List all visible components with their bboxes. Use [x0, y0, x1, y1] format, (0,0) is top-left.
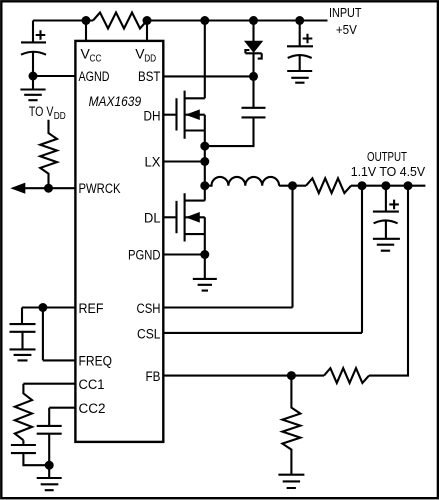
ground G1 (AGND bypass) [20, 76, 45, 100]
svg-text:AGND: AGND [79, 69, 110, 84]
svg-text:CC1: CC1 [79, 377, 105, 392]
svg-text:CSH: CSH [137, 301, 161, 316]
capacitor C6 CC2 compensation [37, 408, 62, 466]
junction node rail-Q1 drain [200, 16, 209, 25]
ground G5 (FB divider) [278, 475, 304, 488]
wire PWRCK [13, 187, 75, 189]
junction node PGND-Q2 source [200, 250, 209, 259]
junction node LX [200, 157, 209, 166]
svg-text:TO V: TO V [29, 104, 54, 119]
wire CSH [163, 186, 292, 308]
wire PGND [163, 253, 205, 255]
wire VCC drop [85, 21, 87, 41]
capacitor C1 VCC bypass (polarized) [21, 21, 46, 77]
resistor R1 VCC filter [93, 13, 147, 29]
capacitor C2 boost [205, 76, 266, 146]
junction node output / CSL [358, 181, 367, 190]
wire VDD drop [146, 21, 148, 41]
wire REF [22, 306, 75, 308]
capacitor C3 input bulk (polarized) [287, 21, 313, 72]
resistor R5 PWRCK pull-up [40, 120, 57, 188]
svg-text:REF: REF [79, 301, 104, 316]
junction node compensation common [45, 461, 54, 470]
wire CC2 [49, 407, 75, 409]
transistor Q1 high-side NMOS (DH) [163, 21, 205, 147]
IC U1 MAX1639 box [75, 41, 163, 442]
wire CC1 [23, 383, 75, 385]
svg-text:1.1V TO 4.5V: 1.1V TO 4.5V [351, 164, 426, 179]
junction node rail-VCC [82, 16, 91, 25]
svg-text:CSL: CSL [137, 326, 161, 341]
junction node PWRCK-R5 [44, 184, 53, 193]
svg-text:DL: DL [144, 211, 161, 226]
transistor Q2 low-side NMOS (DL) [163, 186, 205, 255]
arrow PWRCK output [12, 183, 25, 193]
wire FB [163, 186, 408, 376]
resistor R3 feedback upper [324, 368, 369, 383]
svg-text:LX: LX [145, 155, 161, 170]
svg-text:PGND: PGND [128, 248, 161, 263]
junction node R2 left / CSH [288, 181, 297, 190]
resistor R2 current sense [306, 178, 351, 193]
svg-text:DD: DD [144, 54, 156, 65]
ground G4 (output cap) [373, 239, 400, 251]
junction node switch/inductor [200, 181, 209, 190]
wire FREQ strap to REF [43, 308, 76, 361]
junction node output / R3 [404, 181, 413, 190]
diode D1 schottky (BST) [252, 21, 254, 42]
svg-text:CC: CC [90, 54, 102, 65]
ground G2 (power ground) [193, 255, 217, 291]
svg-text:+5V: +5V [336, 22, 357, 37]
svg-text:OUTPUT: OUTPUT [367, 149, 407, 164]
svg-text:INPUT: INPUT [329, 5, 362, 20]
svg-text:DH: DH [144, 109, 161, 124]
svg-text:FREQ: FREQ [79, 354, 113, 369]
ground G6 (REF cap) [10, 349, 36, 360]
svg-text:CC2: CC2 [79, 401, 106, 416]
resistor R6 CC1 compensation [15, 384, 32, 441]
svg-text:MAX1639: MAX1639 [89, 94, 142, 109]
junction node Q1 source / C2 [200, 142, 209, 151]
wire LX [163, 146, 205, 186]
svg-text:DD: DD [54, 111, 66, 122]
junction node output / C4 [381, 181, 390, 190]
resistor R4 feedback lower [282, 376, 300, 475]
wire CSL [163, 186, 362, 333]
svg-text:FB: FB [146, 369, 161, 384]
ground G7 (compensation) [37, 465, 62, 490]
junction node BST-D1 [249, 72, 258, 81]
junction node rail-C3 [295, 16, 304, 25]
inductor L1 [205, 177, 279, 186]
junction node FB divider [287, 371, 296, 380]
capacitor C7 REF bypass [10, 308, 36, 350]
wire AGND [33, 75, 75, 77]
junction node AGND-C1 [29, 72, 38, 81]
svg-text:BST: BST [138, 69, 161, 84]
wire BST [163, 75, 253, 77]
capacitor C4 output bulk (polarized) [373, 186, 399, 239]
junction node rail-D1 [249, 16, 258, 25]
capacitor C5 CC1 compensation [11, 440, 49, 465]
junction node rail-VDD [143, 16, 152, 25]
ground G3 (input cap) [287, 71, 312, 83]
wire +5V top rail [33, 19, 328, 21]
junction node REF-FREQ [38, 303, 47, 312]
wire output rail [279, 185, 425, 187]
svg-text:PWRCK: PWRCK [79, 181, 121, 196]
